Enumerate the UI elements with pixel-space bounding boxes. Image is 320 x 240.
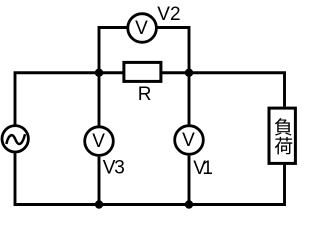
AC source G1 [2, 126, 28, 152]
wire [99, 71, 124, 74]
junction node D [185, 200, 193, 208]
wire [99, 203, 189, 206]
load box (負荷) [269, 108, 295, 163]
wire [15, 73, 99, 125]
wire [99, 28, 127, 73]
voltmeter V3 [85, 127, 114, 156]
junction node C [95, 200, 103, 208]
svg-text:V: V [182, 130, 195, 151]
svg-text:1: 1 [202, 158, 213, 179]
junction node B [185, 69, 193, 77]
load label 負 [275, 118, 292, 136]
svg-text:V: V [135, 18, 148, 39]
svg-text:R: R [138, 84, 152, 105]
wire [189, 165, 285, 205]
resistor R [124, 62, 161, 81]
wire [189, 73, 285, 107]
wire [98, 157, 101, 205]
svg-text:3: 3 [114, 158, 125, 179]
svg-text:V2: V2 [157, 4, 180, 25]
wire [157, 28, 189, 73]
junction node A [95, 69, 103, 77]
svg-text:V: V [92, 131, 105, 152]
wire [98, 73, 101, 126]
wire [188, 156, 191, 205]
load label 荷 [275, 137, 293, 155]
wire [15, 153, 99, 205]
voltmeter V1 [175, 126, 204, 155]
wire [188, 73, 191, 125]
wire [161, 71, 189, 74]
voltmeter V2 [128, 14, 157, 43]
